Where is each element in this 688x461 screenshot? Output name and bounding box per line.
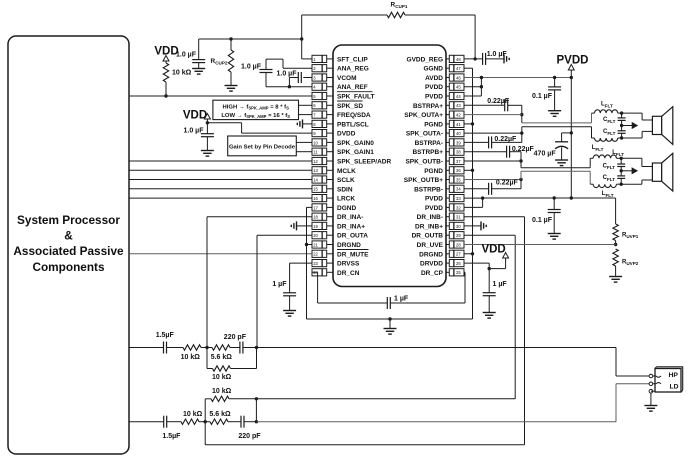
- svg-text:43: 43: [456, 103, 461, 108]
- svg-text:DR_INA-: DR_INA-: [337, 214, 363, 221]
- svg-text:1 µF: 1 µF: [493, 281, 508, 288]
- svg-text:PVDD: PVDD: [557, 54, 589, 66]
- svg-text:20: 20: [313, 233, 318, 238]
- svg-text:FREQ/SDA: FREQ/SDA: [337, 112, 371, 119]
- svg-text:PVDD: PVDD: [425, 84, 443, 91]
- svg-text:1.0 µF: 1.0 µF: [184, 128, 205, 135]
- svg-text:10 kΩ: 10 kΩ: [172, 70, 192, 77]
- svg-text:&: &: [64, 229, 73, 243]
- svg-text:1.5µF: 1.5µF: [162, 433, 181, 440]
- svg-text:36: 36: [456, 168, 461, 173]
- svg-text:VCOM: VCOM: [337, 75, 357, 82]
- svg-text:12: 12: [313, 159, 318, 164]
- svg-text:LRCK: LRCK: [337, 196, 355, 203]
- svg-text:VDD: VDD: [183, 109, 207, 121]
- svg-text:ANA_REG: ANA_REG: [337, 66, 369, 73]
- svg-text:10 kΩ: 10 kΩ: [183, 411, 203, 418]
- svg-text:0.1 µF: 0.1 µF: [532, 93, 553, 100]
- svg-text:10 kΩ: 10 kΩ: [212, 374, 232, 381]
- svg-text:LFLT: LFLT: [601, 102, 613, 109]
- svg-text:1 µF: 1 µF: [394, 295, 409, 302]
- svg-text:Gain Set by Pin Decode: Gain Set by Pin Decode: [229, 145, 296, 151]
- svg-text:DRVSS: DRVSS: [337, 261, 360, 268]
- svg-text:SPK_OUTA-: SPK_OUTA-: [406, 131, 443, 138]
- svg-text:CFLT: CFLT: [603, 163, 616, 170]
- svg-text:44: 44: [456, 94, 461, 99]
- svg-text:45: 45: [456, 85, 461, 90]
- svg-text:SPK_OUTB-: SPK_OUTB-: [405, 159, 443, 166]
- svg-text:LOW → fSPK_AMP = 16 * fS: LOW → fSPK_AMP = 16 * fS: [221, 113, 290, 119]
- svg-text:30: 30: [456, 224, 461, 229]
- svg-text:23: 23: [313, 261, 318, 266]
- svg-text:PBTL/SCL: PBTL/SCL: [337, 121, 369, 128]
- svg-text:41: 41: [456, 122, 461, 127]
- svg-text:DRGND: DRGND: [419, 251, 443, 258]
- svg-text:0.22µF: 0.22µF: [512, 146, 535, 153]
- svg-text:19: 19: [313, 224, 318, 229]
- svg-text:CFLT: CFLT: [603, 175, 616, 182]
- svg-text:LFLT: LFLT: [602, 191, 614, 198]
- svg-text:470 µF: 470 µF: [534, 151, 557, 158]
- svg-text:BSTRPB+: BSTRPB+: [412, 149, 443, 156]
- svg-text:DR_OUTB: DR_OUTB: [412, 233, 444, 240]
- svg-text:HP: HP: [669, 372, 679, 379]
- svg-text:1.0 µF: 1.0 µF: [487, 51, 508, 58]
- svg-text:MCLK: MCLK: [337, 168, 356, 175]
- svg-text:31: 31: [456, 215, 461, 220]
- svg-text:22: 22: [313, 252, 318, 257]
- svg-text:RUVP2: RUVP2: [622, 260, 639, 267]
- svg-text:1.0 µF: 1.0 µF: [277, 71, 298, 78]
- svg-text:220 pF: 220 pF: [238, 433, 261, 440]
- svg-text:18: 18: [313, 215, 318, 220]
- svg-text:GGND: GGND: [424, 66, 444, 73]
- svg-text:5.6 kΩ: 5.6 kΩ: [211, 354, 233, 361]
- svg-text:42: 42: [456, 113, 461, 118]
- svg-text:14: 14: [313, 177, 318, 182]
- svg-text:SPK_GAIN0: SPK_GAIN0: [337, 140, 374, 147]
- svg-text:47: 47: [456, 66, 461, 71]
- svg-text:10: 10: [313, 140, 318, 145]
- svg-text:RUVP1: RUVP1: [622, 233, 639, 240]
- svg-text:39: 39: [456, 140, 461, 145]
- svg-text:GVDD_REG: GVDD_REG: [407, 56, 443, 63]
- svg-text:SPK_SD: SPK_SD: [337, 103, 363, 110]
- svg-text:SPK_OUTB+: SPK_OUTB+: [404, 177, 443, 184]
- svg-text:SCLK: SCLK: [337, 177, 355, 184]
- svg-text:15: 15: [313, 187, 318, 192]
- svg-text:33: 33: [456, 196, 461, 201]
- svg-text:CFLT: CFLT: [603, 129, 616, 136]
- svg-text:25: 25: [456, 270, 461, 275]
- svg-text:PVDD: PVDD: [425, 196, 443, 203]
- svg-text:HIGH → fSPK_AMP = 8 * fS: HIGH → fSPK_AMP = 8 * fS: [222, 104, 289, 110]
- svg-text:LFLT: LFLT: [592, 145, 604, 152]
- svg-text:0.22µF: 0.22µF: [496, 180, 519, 187]
- svg-text:1.5µF: 1.5µF: [156, 332, 175, 339]
- svg-text:DGND: DGND: [337, 205, 356, 212]
- svg-text:SPK_GAIN1: SPK_GAIN1: [337, 149, 374, 156]
- svg-text:SFT_CLIP: SFT_CLIP: [337, 56, 368, 63]
- svg-text:BSTRPB-: BSTRPB-: [414, 186, 443, 193]
- svg-text:CFLT: CFLT: [603, 117, 616, 124]
- svg-text:DR_INB+: DR_INB+: [415, 223, 443, 230]
- svg-text:Associated Passive: Associated Passive: [13, 244, 124, 258]
- svg-text:DR_MUTE: DR_MUTE: [337, 251, 369, 258]
- svg-text:System Processor: System Processor: [17, 213, 120, 227]
- svg-text:28: 28: [456, 242, 461, 247]
- svg-text:11: 11: [313, 150, 318, 155]
- svg-text:PVDD: PVDD: [425, 94, 443, 101]
- svg-text:40: 40: [456, 131, 461, 136]
- svg-text:16: 16: [313, 196, 318, 201]
- svg-text:DR_INB-: DR_INB-: [417, 214, 443, 221]
- svg-text:BSTRPA-: BSTRPA-: [415, 140, 443, 147]
- svg-text:38: 38: [456, 150, 461, 155]
- svg-text:DVDD: DVDD: [337, 131, 356, 138]
- svg-text:ANA_REF: ANA_REF: [337, 84, 368, 91]
- svg-text:1.0 µF: 1.0 µF: [241, 64, 262, 71]
- svg-text:32: 32: [456, 205, 461, 210]
- svg-text:13: 13: [313, 168, 318, 173]
- svg-text:10 kΩ: 10 kΩ: [212, 388, 232, 395]
- svg-text:LD: LD: [670, 383, 679, 390]
- svg-text:34: 34: [456, 187, 461, 192]
- svg-text:DR_UVE: DR_UVE: [417, 242, 444, 249]
- svg-text:Components: Components: [32, 260, 105, 274]
- svg-text:220 pF: 220 pF: [224, 334, 247, 341]
- svg-text:BSTRPA+: BSTRPA+: [413, 103, 443, 110]
- svg-text:0.22µF: 0.22µF: [487, 98, 510, 105]
- svg-text:LFLT: LFLT: [612, 150, 624, 157]
- svg-text:DR_CP: DR_CP: [421, 270, 444, 277]
- svg-text:10 kΩ: 10 kΩ: [181, 354, 201, 361]
- svg-text:27: 27: [456, 252, 461, 257]
- svg-text:0.1 µF: 0.1 µF: [532, 217, 553, 224]
- svg-text:DRGND: DRGND: [337, 242, 361, 249]
- svg-text:DR_OUTA: DR_OUTA: [337, 233, 368, 240]
- svg-text:DR_CN: DR_CN: [337, 270, 360, 277]
- svg-text:5.6 kΩ: 5.6 kΩ: [209, 411, 231, 418]
- svg-text:46: 46: [456, 75, 461, 80]
- svg-text:DRVDD: DRVDD: [420, 261, 443, 268]
- svg-text:PVDD: PVDD: [425, 205, 443, 212]
- svg-text:PGND: PGND: [424, 168, 443, 175]
- svg-text:35: 35: [456, 177, 461, 182]
- svg-text:SDIN: SDIN: [337, 186, 353, 193]
- svg-text:DR_INA+: DR_INA+: [337, 223, 365, 230]
- svg-text:SPK_FAULT: SPK_FAULT: [337, 94, 374, 101]
- svg-text:SPK_OUTA+: SPK_OUTA+: [404, 112, 443, 119]
- svg-text:26: 26: [456, 261, 461, 266]
- svg-text:AVDD: AVDD: [425, 75, 443, 82]
- svg-text:1 µF: 1 µF: [272, 281, 287, 288]
- svg-text:1.0 µF: 1.0 µF: [176, 52, 197, 59]
- svg-text:29: 29: [456, 233, 461, 238]
- svg-text:17: 17: [313, 205, 318, 210]
- svg-text:0.22µF: 0.22µF: [494, 136, 517, 143]
- svg-text:VDD: VDD: [481, 243, 505, 255]
- svg-text:SPK_SLEEP/ADR: SPK_SLEEP/ADR: [337, 159, 391, 166]
- svg-text:48: 48: [456, 57, 461, 62]
- svg-text:PGND: PGND: [424, 121, 443, 128]
- svg-text:21: 21: [313, 242, 318, 247]
- svg-text:37: 37: [456, 159, 461, 164]
